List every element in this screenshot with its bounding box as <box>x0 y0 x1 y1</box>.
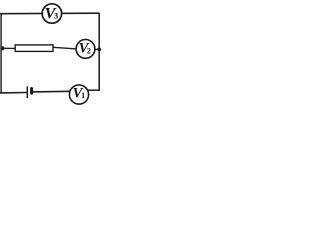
node: junction dot right <box>97 48 101 52</box>
voltmeter V1 circle <box>69 85 88 104</box>
voltmeter V2 circle <box>76 40 95 59</box>
wire: middle branch right lead <box>53 47 77 49</box>
battery B1: short thick plate <box>30 89 33 94</box>
wire: left vertical <box>0 13 2 93</box>
resistor R <box>15 45 53 52</box>
wire: right vertical <box>98 13 100 91</box>
wire: middle branch left lead <box>1 47 16 49</box>
background <box>0 0 103 108</box>
wire: bottom rail right segment <box>33 90 71 93</box>
wire: V1 right stub <box>88 89 100 91</box>
svg-text:1: 1 <box>81 91 85 100</box>
svg-text:3: 3 <box>54 10 59 20</box>
wire: top rail <box>0 12 100 15</box>
wire: V2 right stub <box>95 48 100 50</box>
battery B1: long plate <box>26 86 28 98</box>
voltmeter V3 circle <box>42 4 61 23</box>
svg-text:2: 2 <box>87 46 91 55</box>
wire: bottom rail left segment <box>0 92 27 94</box>
node: junction dot left <box>0 46 4 50</box>
